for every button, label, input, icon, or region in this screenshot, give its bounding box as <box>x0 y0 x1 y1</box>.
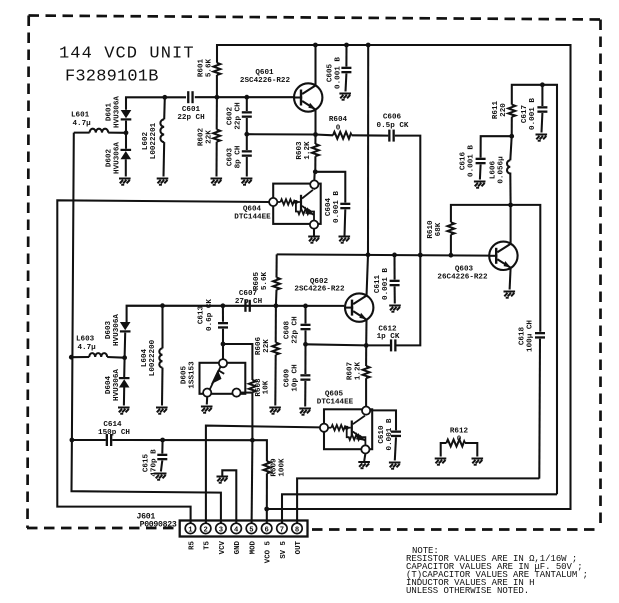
label Q602 2SC4226-R22 <box>294 278 345 294</box>
capacitor C610 <box>370 410 401 460</box>
svg-text:C615: C615 <box>143 453 151 472</box>
svg-text:R606: R606 <box>255 336 263 355</box>
resistor R602 <box>213 97 220 176</box>
node Q601 collector on bus <box>313 43 318 48</box>
svg-text:HVU306A: HVU306A <box>113 314 121 346</box>
node R601 bottom <box>215 95 220 100</box>
resistor R604 zero ohm <box>316 132 389 139</box>
node MOD junction <box>250 438 255 443</box>
svg-text:HVU306A: HVU306A <box>113 142 121 174</box>
svg-text:R611: R611 <box>492 100 500 119</box>
label L602 L0022201 <box>142 122 158 159</box>
ground C605 <box>339 94 351 100</box>
svg-text:D603: D603 <box>105 320 113 339</box>
capacitor C602 <box>242 97 252 134</box>
svg-text:R608: R608 <box>255 378 263 397</box>
connector pin 7 <box>277 523 287 534</box>
ground R612 left <box>435 459 447 465</box>
svg-text:22K: 22K <box>263 339 271 353</box>
label C616 0.001 B <box>460 145 476 177</box>
svg-text:R603: R603 <box>296 141 304 160</box>
node emitter R603 R604 <box>313 132 318 137</box>
label C606 0.5p CK <box>377 114 409 131</box>
label Q601 2SC4226-R22 <box>240 69 291 85</box>
capacitor C603 <box>242 134 252 176</box>
node R605 R606 junction <box>274 303 279 308</box>
svg-text:22K: 22K <box>205 130 213 144</box>
svg-text:R609: R609 <box>271 458 279 477</box>
label R609 100K <box>271 458 287 477</box>
connector pin 5 <box>246 523 256 534</box>
svg-text:7: 7 <box>280 526 284 534</box>
label Q604 DTC144EE <box>234 206 271 222</box>
inductor L604 <box>159 306 162 406</box>
wire OUT bus <box>297 478 539 523</box>
resistor R611 <box>508 85 557 495</box>
wire T5 net pin2 to Q605 input <box>206 426 320 524</box>
svg-text:0: 0 <box>336 125 341 133</box>
svg-text:8: 8 <box>295 526 299 534</box>
node C611 tap <box>392 253 397 258</box>
svg-text:22p CH: 22p CH <box>177 114 205 122</box>
svg-text:144 VCD UNIT: 144 VCD UNIT <box>59 45 195 64</box>
label D602 HVU306A <box>106 142 122 174</box>
ground C616 <box>474 182 486 188</box>
ground D602 <box>119 179 131 185</box>
svg-text:L0022200: L0022200 <box>149 339 157 376</box>
svg-text:0.056μ: 0.056μ <box>497 156 505 184</box>
node Q602 feed on bus <box>366 43 371 48</box>
svg-text:5.6K: 5.6K <box>261 271 269 290</box>
label C614 150p CH <box>98 421 130 437</box>
svg-text:22p CH: 22p CH <box>234 102 242 130</box>
label C607 27p CH <box>235 290 263 306</box>
label R612 0 <box>450 428 469 444</box>
digital transistor Q605 DTC144EE <box>320 407 372 454</box>
label R605 5.6K <box>253 271 269 290</box>
label R610 68K <box>427 220 443 239</box>
ground R606 <box>269 408 281 414</box>
svg-text:D604: D604 <box>105 375 113 394</box>
svg-text:C607: C607 <box>239 290 258 298</box>
capacitor C614 <box>72 434 253 446</box>
note text <box>406 546 588 596</box>
resistor R601 <box>214 63 221 97</box>
wire SV5 bus <box>282 494 557 523</box>
ground Q605 emitter <box>358 454 370 469</box>
svg-text:L603: L603 <box>76 336 95 344</box>
svg-text:0.5p CK: 0.5p CK <box>377 122 409 130</box>
label C617 0.001 B <box>521 98 537 130</box>
label R604 0 <box>329 116 348 133</box>
svg-text:C603: C603 <box>227 147 235 166</box>
svg-text:0: 0 <box>457 436 462 444</box>
label L606 0.056u <box>490 156 506 184</box>
capacitor C613 <box>218 306 228 344</box>
resistor R612 zero ohm <box>441 440 478 457</box>
svg-text:1: 1 <box>188 526 193 534</box>
label D605 1SS153 <box>181 361 197 389</box>
svg-text:220: 220 <box>500 103 508 117</box>
svg-text:VCV: VCV <box>219 540 227 554</box>
svg-text:C608: C608 <box>284 320 292 339</box>
svg-text:R604: R604 <box>329 116 348 124</box>
node Q602 emitter junction <box>364 343 369 348</box>
label C613 0.6p CK <box>198 299 215 331</box>
digital transistor Q604 DTC144EE <box>269 180 321 228</box>
ground Q604 emitter <box>308 229 320 243</box>
svg-text:GND: GND <box>234 540 242 554</box>
svg-text:R601: R601 <box>198 58 206 77</box>
node R610 tap <box>449 253 454 258</box>
svg-text:8p CH: 8p CH <box>234 145 242 168</box>
label R607 1.2K <box>347 361 363 380</box>
ground C610 <box>389 463 401 469</box>
svg-text:1p CK: 1p CK <box>377 333 400 341</box>
label C608 22p CH <box>284 316 300 344</box>
label C605 0.001 B <box>327 57 343 89</box>
svg-text:OUT: OUT <box>295 540 303 554</box>
resistor R605 <box>273 254 280 305</box>
transistor Q602 2SC4226-R22 <box>344 293 373 345</box>
label R602 22K <box>198 127 214 146</box>
wire R5 input net <box>57 200 268 523</box>
svg-text:2SC4226-R22: 2SC4226-R22 <box>240 77 291 85</box>
capacitor C601 <box>187 91 194 103</box>
capacitor C618 output <box>511 205 545 479</box>
node C608 C609 junction <box>303 342 308 347</box>
resistor R607 <box>363 345 370 406</box>
diode D601 varactor <box>121 110 132 133</box>
svg-text:5: 5 <box>249 526 253 534</box>
svg-text:26C4226-R22: 26C4226-R22 <box>437 274 488 282</box>
inductor L603 <box>71 353 124 358</box>
resistor R606 <box>272 306 279 406</box>
svg-text:0.001 B: 0.001 B <box>382 268 390 300</box>
svg-text:100K: 100K <box>278 458 286 477</box>
ground C609 <box>299 409 311 415</box>
label D604 HVU306A <box>105 369 121 401</box>
svg-text:C609: C609 <box>284 368 292 387</box>
ground D605 <box>201 407 213 413</box>
svg-text:2SC4226-R22: 2SC4226-R22 <box>294 286 345 294</box>
node C614 left on VCV line <box>70 438 75 443</box>
label D603 HVU306A <box>105 314 121 346</box>
svg-text:Q605: Q605 <box>325 391 344 399</box>
label R611 220 <box>492 100 508 119</box>
label L603 4.7u <box>76 336 96 353</box>
svg-text:4.7μ: 4.7μ <box>78 344 97 352</box>
svg-text:D602: D602 <box>106 148 114 167</box>
svg-text:1SS153: 1SS153 <box>188 361 196 389</box>
wire C613 junction to R608 <box>223 344 252 380</box>
capacitor C605 <box>341 45 351 92</box>
ground C617 <box>536 135 548 141</box>
svg-text:C613: C613 <box>198 305 206 324</box>
ground C611 <box>389 306 401 312</box>
capacitor C615 <box>157 440 167 472</box>
svg-text:D605: D605 <box>181 365 189 384</box>
node D603 D604 L603 junction <box>122 355 127 360</box>
diode D603 varactor <box>120 322 131 358</box>
transistor Q601 2SC4226-R22 <box>294 45 322 135</box>
node L606 R611 C616 junction <box>509 134 514 139</box>
svg-text:3: 3 <box>219 526 223 534</box>
svg-text:C617: C617 <box>521 104 529 123</box>
svg-text:T5: T5 <box>204 540 212 549</box>
node C602 bottom emitter line <box>244 132 249 137</box>
label R608 10K <box>255 378 271 397</box>
ground D604 <box>118 408 130 414</box>
svg-text:HVU306A: HVU306A <box>113 96 121 128</box>
svg-text:4.7μ: 4.7μ <box>73 120 92 128</box>
connector pin 3 <box>216 523 226 534</box>
connector pin 2 <box>201 523 211 534</box>
node D601 D602 L601 junction <box>124 130 129 135</box>
label C604 0.001 B <box>325 191 341 223</box>
node Q603 collector L606 C618 junction <box>508 203 513 208</box>
transistor Q603 26C4226-R22 <box>489 205 517 290</box>
capacitor C617 <box>537 85 547 133</box>
connector pin 6 <box>262 523 272 534</box>
diode D605 1SS153 <box>200 344 253 405</box>
capacitor C608 <box>301 306 311 344</box>
svg-text:HVU306A: HVU306A <box>113 369 121 401</box>
connector J601 body <box>180 521 308 537</box>
svg-text:R605: R605 <box>253 271 261 290</box>
svg-text:Q604: Q604 <box>243 206 262 214</box>
connector pin 4 <box>231 523 241 534</box>
svg-text:R607: R607 <box>347 361 355 380</box>
node L604 top <box>160 303 165 308</box>
wire VCO tank top line <box>126 97 186 110</box>
svg-text:1.2K: 1.2K <box>304 141 312 160</box>
svg-text:C604: C604 <box>325 197 333 216</box>
node Q602 collector feed <box>366 252 371 257</box>
label R603 1.2K <box>296 141 312 160</box>
label C601 22p CH <box>177 106 205 122</box>
svg-text:L606: L606 <box>490 160 498 179</box>
label R601 5.6K <box>198 58 214 77</box>
node C608 top <box>303 304 308 309</box>
svg-text:DTC144EE: DTC144EE <box>317 399 354 407</box>
svg-text:0.001 B: 0.001 B <box>467 145 475 177</box>
wire C608 junction to Q602 emitter node <box>306 344 367 345</box>
svg-text:R612: R612 <box>450 428 469 436</box>
node R603 C604 Q604 junction <box>313 169 318 174</box>
capacitor C609 <box>300 344 310 406</box>
svg-text:0.6p CK: 0.6p CK <box>206 299 214 331</box>
svg-text:C606: C606 <box>383 114 402 122</box>
label L604 L0022200 <box>141 339 157 376</box>
svg-text:L0022201: L0022201 <box>150 122 158 159</box>
capacitor C606 <box>388 130 420 255</box>
capacitor C604 <box>315 172 350 243</box>
ground L604 <box>156 408 168 414</box>
inductor L601 <box>74 129 126 133</box>
wire R605 top feed line <box>277 254 489 255</box>
svg-text:Q601: Q601 <box>255 69 274 77</box>
inductor L606 <box>507 136 512 205</box>
svg-text:10K: 10K <box>263 380 271 394</box>
ground L602 <box>157 179 169 185</box>
label C618 100u CH <box>519 320 535 352</box>
label D601 HVU306A <box>106 96 122 128</box>
connector pin 8 <box>292 523 302 534</box>
svg-text:C602: C602 <box>227 106 235 125</box>
svg-text:4: 4 <box>234 526 239 534</box>
resistor R608 <box>249 380 256 440</box>
ground R612 right <box>472 459 484 465</box>
ground Q603 emitter <box>504 292 516 298</box>
svg-text:L602: L602 <box>142 131 150 150</box>
ground C603 <box>241 179 253 185</box>
svg-text:0.001 B: 0.001 B <box>529 98 537 130</box>
label C609 10p CH <box>284 364 300 392</box>
node C602 top <box>244 95 249 100</box>
svg-text:6: 6 <box>265 526 269 534</box>
capacitor C607 <box>244 300 251 312</box>
node L603 on VCV line <box>69 355 74 360</box>
svg-text:C618: C618 <box>519 326 527 345</box>
capacitor C616 <box>476 136 512 179</box>
svg-text:UNLESS OTHERWISE NOTED.: UNLESS OTHERWISE NOTED. <box>406 586 529 596</box>
label C612 1p CK <box>377 326 400 342</box>
wire top supply bus <box>217 45 571 509</box>
svg-text:R610: R610 <box>427 220 435 239</box>
svg-text:C610: C610 <box>378 425 386 444</box>
svg-text:VCO 5: VCO 5 <box>265 540 273 563</box>
svg-text:0.001 B: 0.001 B <box>334 57 342 89</box>
label C602 22p CH <box>227 102 243 130</box>
label C603 8p CH <box>227 145 243 168</box>
node C617 top <box>540 82 545 87</box>
connector pin 1 <box>185 523 195 534</box>
svg-text:C614: C614 <box>103 421 122 429</box>
svg-text:0.001 B: 0.001 B <box>333 191 341 223</box>
svg-text:F3289101B: F3289101B <box>65 68 159 87</box>
node C606 C612 vertical tap <box>418 253 423 258</box>
svg-text:C601: C601 <box>182 106 201 114</box>
svg-text:5.6K: 5.6K <box>205 58 213 77</box>
node L602 top <box>162 95 167 100</box>
wire Q604 collector to R603 node <box>313 172 315 181</box>
ground R602 <box>211 179 223 185</box>
ground C615 <box>155 474 167 480</box>
svg-text:P0090823: P0090823 <box>140 521 177 530</box>
svg-text:0.001 B: 0.001 B <box>386 418 394 450</box>
svg-text:R602: R602 <box>198 127 206 146</box>
svg-text:C611: C611 <box>374 274 382 293</box>
wire lower tank top line <box>127 306 345 322</box>
svg-text:C605: C605 <box>327 63 335 82</box>
svg-text:1.2K: 1.2K <box>354 361 362 380</box>
svg-text:L604: L604 <box>141 348 149 367</box>
label C611 0.001 B <box>374 268 390 300</box>
node C613 bottom D605 junction <box>221 342 226 347</box>
svg-text:D601: D601 <box>106 102 114 121</box>
svg-text:SV 5: SV 5 <box>280 540 288 558</box>
svg-text:2: 2 <box>204 526 208 534</box>
ground pin4 GND <box>217 470 237 523</box>
svg-text:150p CH: 150p CH <box>98 429 130 437</box>
label Q605 DTC144EE <box>317 391 354 407</box>
svg-text:22p CH: 22p CH <box>291 316 299 344</box>
svg-text:C616: C616 <box>460 151 468 170</box>
diode D602 varactor <box>121 133 132 177</box>
diode D604 varactor <box>119 358 130 406</box>
wire emitter line <box>247 133 316 135</box>
resistor R610 <box>448 205 511 255</box>
inductor L602 <box>160 97 164 176</box>
resistor R603 <box>312 135 319 172</box>
svg-text:27p CH: 27p CH <box>235 298 263 306</box>
svg-text:MOD: MOD <box>249 540 257 554</box>
label C610 0.001 B <box>378 418 394 450</box>
capacitor C612 <box>366 255 420 351</box>
svg-text:L601: L601 <box>71 112 90 120</box>
label C615 470p B <box>143 449 159 477</box>
label Q603 26C4226-R22 <box>437 266 488 282</box>
node C605 on bus <box>344 43 349 48</box>
node C613 top <box>221 303 226 308</box>
wire MOD net pin5 <box>251 440 254 523</box>
svg-text:DTC144EE: DTC144EE <box>234 214 271 222</box>
node pin6 bus junction <box>264 507 269 512</box>
label R606 22K <box>255 336 271 355</box>
resistor R609 <box>252 440 270 523</box>
border frame (dashed) <box>27 16 601 530</box>
svg-text:Q603: Q603 <box>455 266 474 274</box>
node C615 top <box>160 438 165 443</box>
wire Q602 collector vertical <box>367 45 369 255</box>
svg-text:68K: 68K <box>435 222 443 236</box>
svg-text:R5: R5 <box>188 540 196 549</box>
label L601 4.7u <box>71 112 91 129</box>
svg-text:100μ CH: 100μ CH <box>526 320 534 352</box>
svg-text:10p CH: 10p CH <box>291 364 299 392</box>
capacitor C611 <box>390 255 400 304</box>
wire VCV net <box>72 133 221 524</box>
